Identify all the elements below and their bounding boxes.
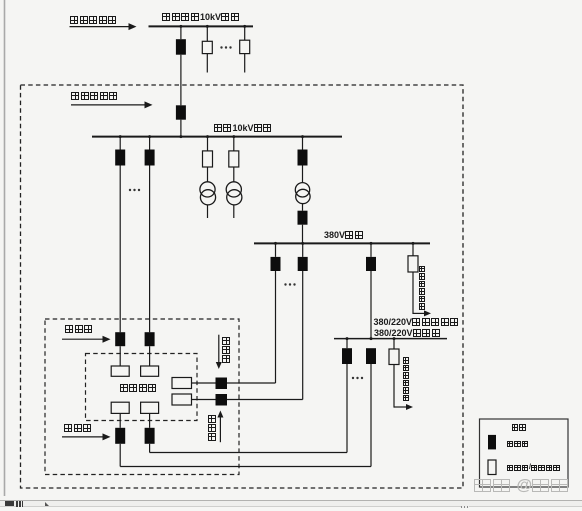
label: 380V母线 (380V bus) — [324, 231, 364, 249]
wire: station transformer drop — [302, 137, 304, 150]
wire: CB1 to CB2 — [180, 55, 182, 106]
wire: PV feeder 2 drop — [149, 137, 151, 150]
fuse-switch F3 — [203, 151, 213, 167]
fuse-switch F6 — [389, 349, 399, 365]
ellipsis: more overhead feeders — [352, 377, 354, 379]
wire: PV bottom tie A horizontal — [150, 452, 347, 454]
node: overhead line tap — [370, 337, 373, 340]
arrow: user internal load 2 — [393, 365, 395, 408]
breaker CB1 (grid side) — [176, 39, 186, 55]
bus: user 10kV busbar — [92, 136, 342, 138]
label: 光伏电站 (PV power station) — [120, 384, 158, 402]
status bar top border — [0, 500, 582, 501]
status bar body — [0, 501, 582, 506]
wire: T1 stub — [207, 205, 209, 218]
wire: CB5 to T3 — [302, 166, 304, 184]
breaker CB6 — [298, 211, 308, 225]
wire: CB10 down to PV tie 2 — [302, 271, 304, 400]
scrollbar grip dots — [461, 506, 469, 508]
wire: CB13 down — [370, 364, 372, 467]
breaker CB17 — [216, 394, 228, 406]
ellipsis: more 380V feeders — [284, 283, 286, 285]
inverter unit INV3 — [111, 402, 129, 413]
label: 380/220V用户配电箱 (user distribution box) — [374, 318, 460, 336]
wire: PV bottom tie B horizontal — [120, 466, 371, 468]
wire: CB2 to user bus — [180, 120, 182, 137]
transformer T2 — [226, 182, 241, 197]
wire: CB15 down to tie A — [149, 444, 151, 453]
wire: transformer branch 1 drop — [207, 137, 209, 151]
label: 断路器 (breaker) — [507, 441, 530, 459]
wire: 380V drop 4 — [412, 243, 414, 255]
wire: other grid feeder 2 — [244, 26, 246, 40]
bus: public grid 10kV busbar — [149, 25, 254, 27]
breaker CB12 — [342, 348, 352, 364]
ellipsis: more grid feeders — [220, 46, 222, 48]
label: 380/220V架空线 (overhead line) — [374, 329, 441, 347]
wire: F2 stub — [244, 54, 246, 73]
bus: 380/220V overhead line — [334, 338, 447, 340]
fuse-switch F4 — [229, 151, 239, 167]
breaker CB8 (PV feeder 2) — [145, 332, 155, 346]
inverter unit INV6 — [172, 394, 192, 405]
bus: 380V busbar — [254, 242, 430, 244]
watermark: 知乎 @丁一 — [474, 479, 570, 497]
page left edge — [4, 0, 6, 496]
inverter unit INV2 — [141, 366, 159, 376]
wire: F4 to T2 — [233, 167, 235, 182]
wire: PV tie 1 horizontal — [227, 382, 276, 384]
wire: CB6 to 380V bus — [302, 225, 304, 244]
wire: overhead drop 1 — [346, 339, 348, 349]
wire: CB7 to inverter 1 — [119, 346, 121, 366]
label: 公共电网10kV母线 (public grid 10kV bus) — [162, 13, 240, 31]
label: 用户10kV母线 (user 10kV bus) — [214, 124, 273, 142]
wire: PV feeder 2 down — [149, 166, 151, 333]
wire: CB9 down to PV tie 1 — [275, 271, 277, 383]
label: 并网点 bottom-right vertical — [208, 415, 216, 442]
arrow: grid-connection point top-left — [62, 338, 103, 340]
transformer T3 — [295, 183, 309, 197]
label: 产权分界点 (property demarcation point) — [71, 92, 119, 110]
wire: CB12 down — [346, 364, 348, 453]
node: main feed junction — [179, 135, 182, 138]
breaker CB16 — [216, 378, 228, 390]
status bar icon 2 — [16, 501, 23, 507]
label: 并网点 bottom-left (grid-connection point) — [64, 424, 93, 442]
status bar lower strip — [0, 507, 582, 511]
legend symbol: breaker/fuse switch — [488, 460, 496, 475]
boundary box: property demarcation (dashed) — [21, 85, 464, 488]
breaker CB5 — [298, 150, 308, 166]
breaker CB7 (PV feeder 1) — [115, 332, 125, 346]
wire: CB14 down to tie B — [119, 444, 121, 467]
wire: overhead drop 3 — [393, 339, 395, 349]
wire: other grid feeder 1 — [206, 26, 208, 41]
transformer T1 — [200, 182, 215, 197]
inverter unit INV1 — [111, 366, 129, 376]
breaker CB10 — [298, 257, 308, 271]
wire: transformer branch 2 drop — [233, 137, 235, 151]
breaker CB4 — [145, 150, 155, 166]
arrow: grid-connection point bottom-left — [62, 436, 103, 438]
ellipsis: more PV feeders — [129, 189, 131, 191]
wire: INV6 to CB17 — [192, 399, 216, 401]
breaker CB9 — [271, 257, 281, 271]
wire: T2 stub — [233, 205, 235, 218]
label: 公共连接点 (public connection point) — [70, 16, 118, 34]
node: grid bus junction 2 — [206, 25, 209, 28]
legend box — [480, 419, 569, 487]
arrow: property demarcation point — [71, 104, 145, 106]
label: 用户内部负荷 vertical (user internal load 2) — [403, 357, 410, 402]
boundary box: grid-connection point area (dashed) — [45, 319, 239, 475]
arrow: grid-connection point bottom-right (up) — [219, 418, 221, 443]
wire: F3 to T1 — [207, 167, 209, 182]
wire: CB11 to overhead line — [370, 271, 372, 339]
wire: INV3 to CB14 — [119, 413, 121, 427]
breaker CB15 — [145, 428, 155, 444]
label: 用户内部负荷 vertical (user internal load 1) — [419, 266, 426, 311]
wire: INV5 to CB16 — [192, 382, 216, 384]
status bar cursor mark — [45, 502, 49, 506]
label: 图例 (legend title) — [512, 424, 527, 442]
inverter unit INV4 — [141, 402, 159, 413]
status bar icon 1 — [5, 501, 14, 506]
label: 并网点 top-right vertical — [222, 337, 230, 364]
node: grid bus junction 3 — [243, 25, 246, 28]
label: 并网点 top-left (grid-connection point) — [65, 325, 94, 343]
wire: 380V drop 1 — [275, 243, 277, 257]
wire: grid feed drop — [180, 26, 182, 39]
breaker CB13 — [366, 348, 376, 364]
status bar divider — [0, 506, 582, 507]
arrow: user internal load 1 — [412, 272, 414, 314]
wire: 380V drop 3 — [370, 243, 372, 257]
wire: F1 stub — [206, 54, 208, 73]
legend symbol: breaker — [488, 435, 496, 450]
wire: CB8 to inverter 2 — [149, 346, 151, 366]
arrow: public connection point — [70, 26, 129, 28]
label: 断路器/熔断开关 (breaker/fuse switch) — [507, 465, 561, 483]
wire: 380V drop 2 — [302, 243, 304, 257]
wire: INV4 to CB15 — [149, 413, 151, 427]
inverter unit INV5 — [172, 378, 192, 389]
wire: PV feeder 1 down — [119, 166, 121, 333]
fuse-switch F5 — [408, 256, 418, 272]
breaker CB11 — [366, 257, 376, 271]
arrow: grid-connection point top-right (down) — [218, 335, 220, 362]
breaker CB14 — [115, 428, 125, 444]
fuse-switch F2 — [240, 40, 250, 53]
boundary box: PV station (dashed) — [86, 354, 198, 421]
node: grid bus junction 1 — [179, 25, 182, 28]
fuse-switch F1 — [202, 41, 212, 53]
wire: PV feeder 1 drop — [119, 137, 121, 150]
wire: PV tie 2 horizontal — [227, 399, 303, 401]
breaker CB2 (demarcation) — [176, 105, 186, 119]
breaker CB3 — [115, 150, 125, 166]
wire: T3 to CB6 — [302, 204, 304, 211]
